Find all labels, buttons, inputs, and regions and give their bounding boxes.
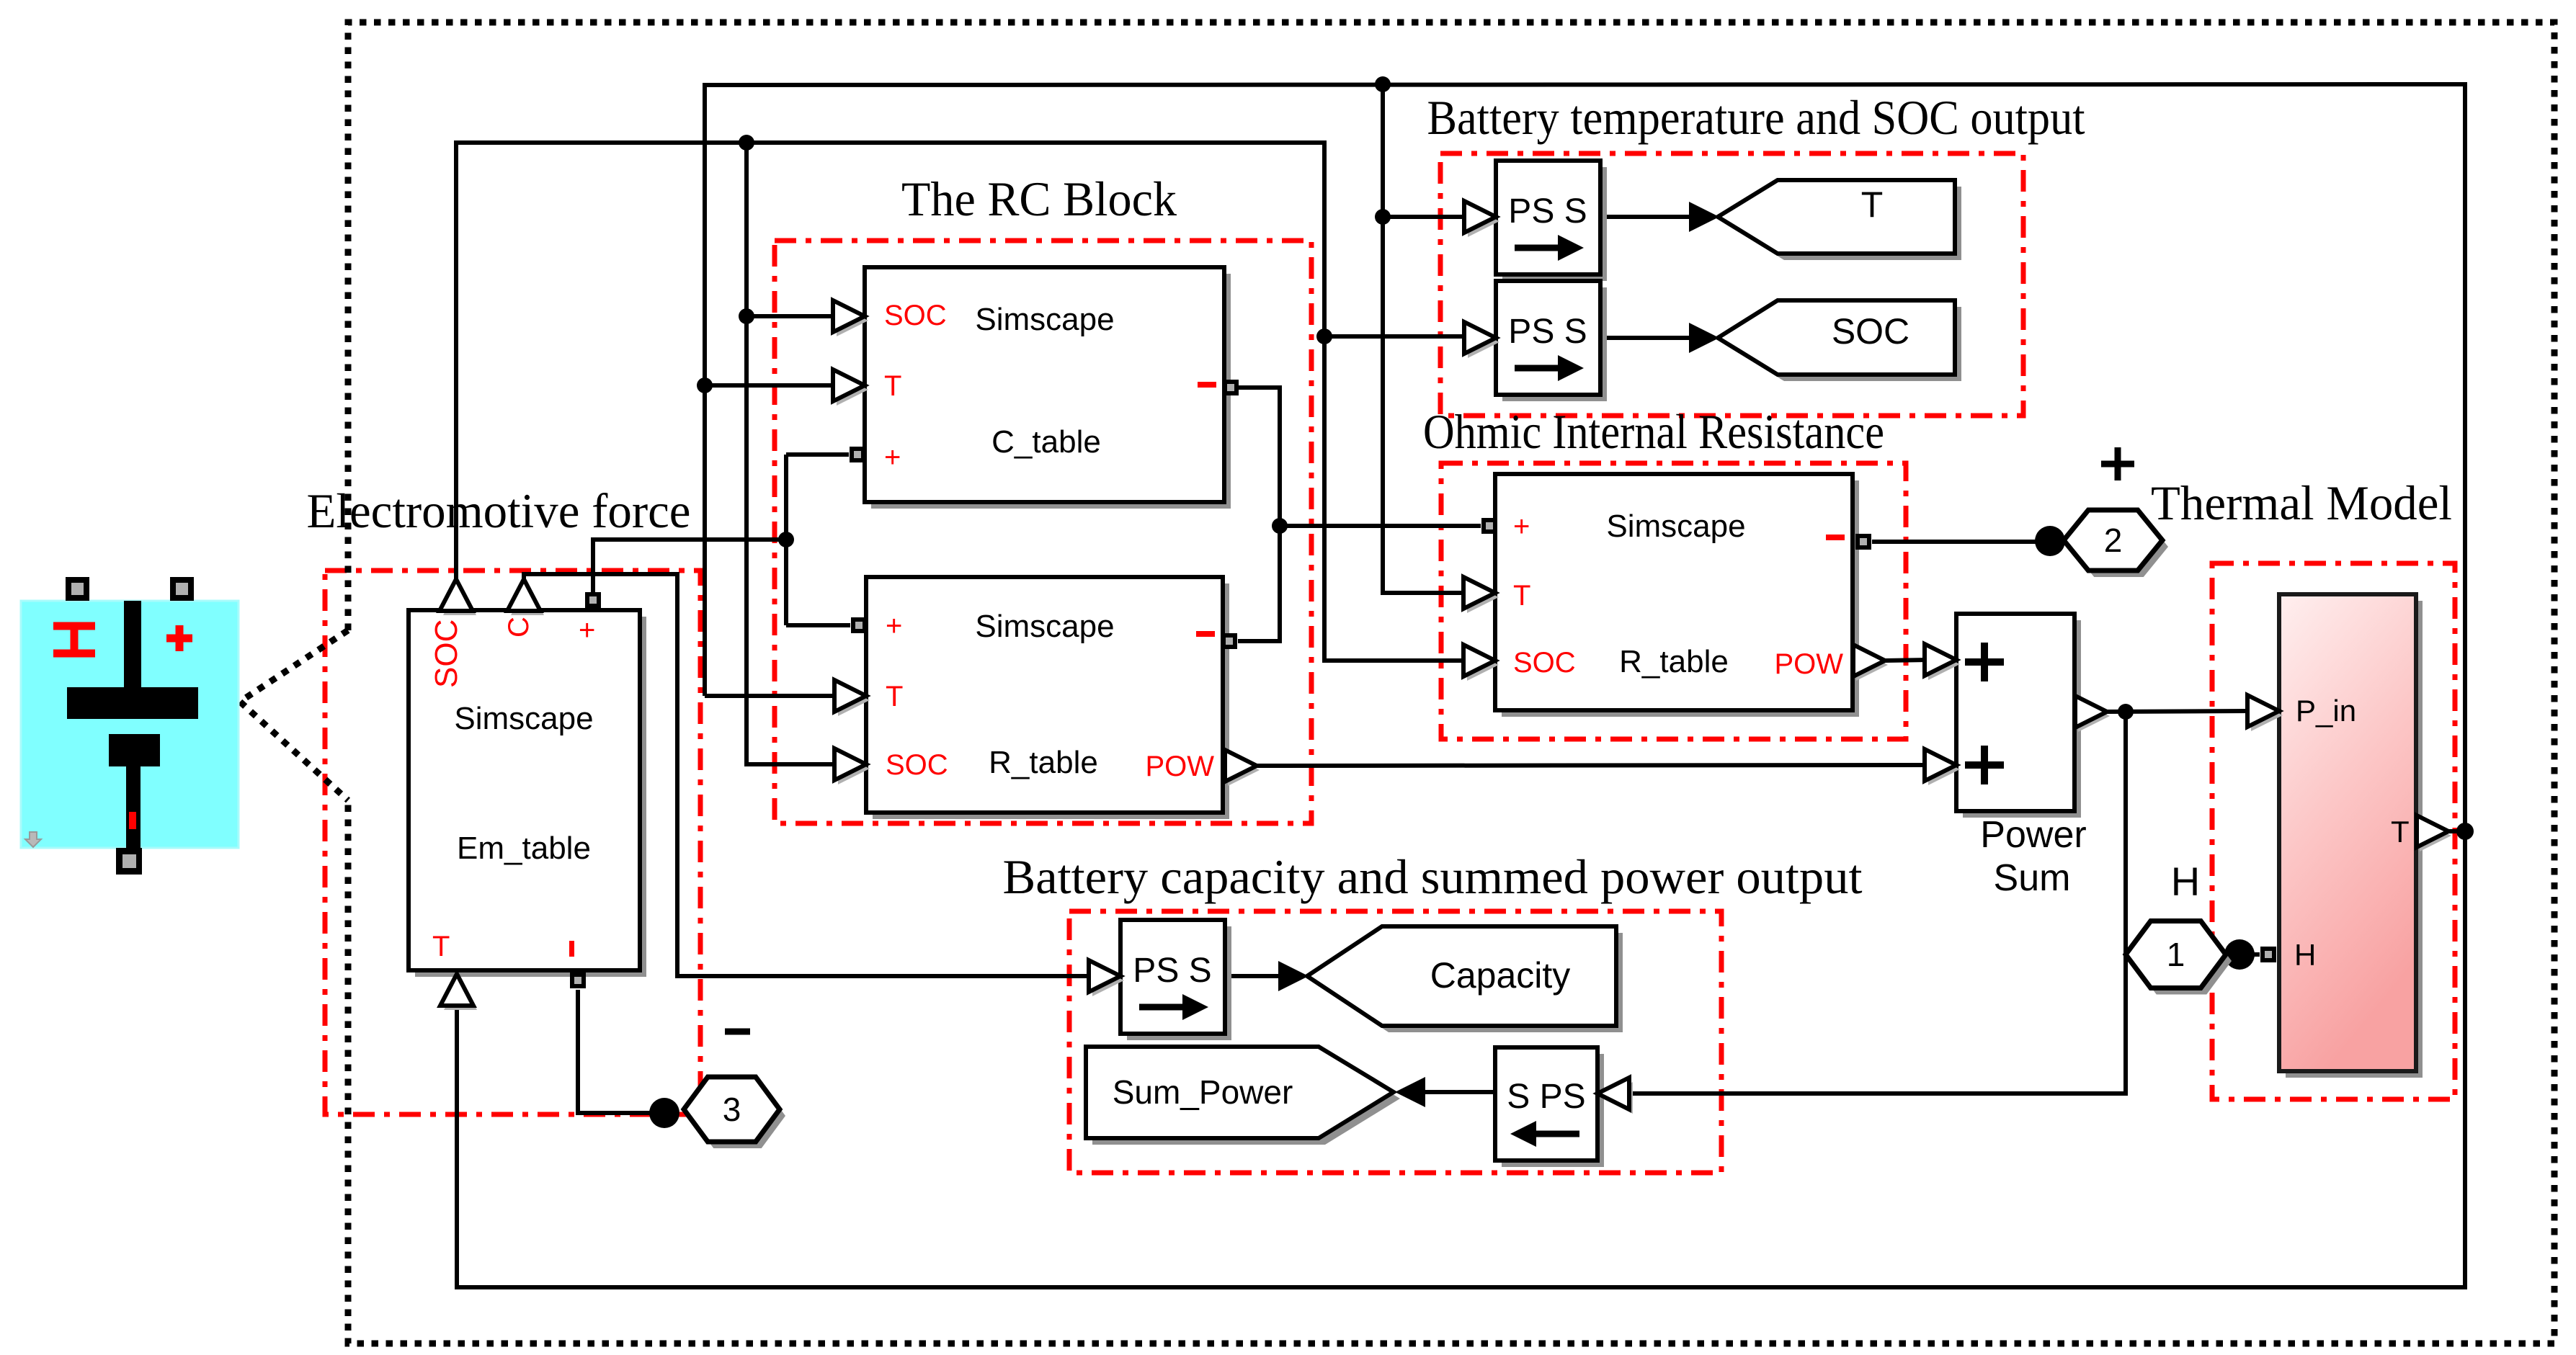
svg-text:T: T [432,931,450,962]
pin thermal H port [2260,947,2276,962]
junction T net top [1375,76,1391,92]
svg-text:SOC: SOC [429,620,464,688]
junction power sum output [2118,704,2134,720]
pin C_table - [1223,380,1239,395]
wire T branch to C_table T [705,383,834,388]
region box Battery temperature and SOC output [1440,153,2023,416]
junction port 2 connection [2035,526,2065,556]
svg-text:Thermal Model: Thermal Model [2151,475,2452,530]
wire PS2 to SOC tag [1600,336,1695,340]
svg-text:R_table: R_table [989,745,1098,780]
block PS-Simulink converter 2 (SOC) [1496,281,1607,401]
svg-text:2: 2 [2104,522,2123,559]
pin C_table + [850,447,865,462]
label - for port 3 [725,1029,750,1035]
wire S-PS to Sum_Power [1405,1090,1498,1094]
svg-text:SOC: SOC [886,749,948,781]
pin Em_table - (bottom) [570,972,586,988]
pin Em_table C (top) [511,583,544,615]
svg-text:H: H [2171,859,2200,904]
pin Em_table + (top) [585,592,601,608]
region box Battery capacity and summed power output [1069,911,1721,1173]
svg-text:T: T [884,370,901,402]
port 1 (H thermal) hexagon [2126,921,2232,995]
svg-text:Simscape: Simscape [975,302,1114,337]
svg-text:P_in: P_in [2296,694,2356,728]
pin Ohmic R_table POW output [1856,649,1888,681]
svg-text:POW: POW [1774,648,1843,680]
region box Ohmic Internal Resistance [1441,463,1906,739]
svg-text:C: C [503,617,535,638]
block Power Sum (adder) [1956,614,2087,899]
wire + to C_table [786,452,849,457]
block R_table (Simscape table, RC resistance) [866,577,1229,819]
pin Power Sum output [2078,700,2110,732]
svg-text:Electromotive force: Electromotive force [307,483,691,538]
pin RC R_table T [838,684,870,716]
junction T to PS1 [1375,209,1391,225]
wire branch to Ohmic + port [1280,524,1481,528]
pin RC R_table + [851,617,867,633]
block Em_table (Simscape table, electromotive force) [409,610,646,977]
svg-text:Sum: Sum [1994,857,2071,899]
block Simulink-PS converter (summed power) [1495,1047,1604,1167]
wire PS1 to T tag [1600,215,1695,219]
wire T branch to Ohmic T via PS [1383,84,1465,593]
wire SOC branch to PS-S converter 2 [1324,334,1465,339]
wire PS-S to Capacity tag [1224,974,1287,978]
svg-text:SOC: SOC [1832,311,1909,352]
pin Ohmic R_table + [1481,518,1497,534]
wire Ohmic minus to port 2 [1872,540,2039,544]
wire + net from Em_table [593,540,786,609]
pin PS-S 1 input [1468,205,1499,237]
tag SOC output [1718,300,1961,381]
wire C_table minus to R_table minus [1238,388,1280,641]
svg-text:Simscape: Simscape [975,609,1114,644]
pin Power Sum +2 input [1928,753,1960,785]
wire C net to PS-S capacity [524,574,1089,976]
svg-text:+: + [886,610,902,642]
svg-text:S PS: S PS [1507,1078,1585,1116]
svg-text:The RC Block: The RC Block [901,171,1177,226]
svg-text:Simscape: Simscape [1606,509,1745,544]
wire + to RC R_table [786,623,850,627]
svg-text:H: H [2294,938,2316,972]
battery icon small gray arrow [25,832,41,847]
block R_table (Simscape table, ohmic internal resistance) [1495,474,1859,717]
svg-text:T: T [2391,815,2410,849]
pin P_in input [2251,699,2283,731]
junction minus net to ohmic [1272,518,1288,534]
wire SOC branch to RC R_table [746,143,836,764]
wire T branch to PS-S converter 1 [1383,215,1465,219]
block PS-Simulink converter 3 (capacity) [1120,920,1231,1040]
tag T output [1718,180,1961,260]
arrow into SOC tag [1689,323,1719,353]
pin Em_table SOC (top) [443,583,476,615]
arrow into Sum_Power tag [1395,1077,1425,1107]
battery icon plus marker [166,635,192,643]
region box Thermal Model [2212,563,2455,1099]
junction SOC main branch [739,135,754,151]
pin Ohmic R_table - [1855,534,1871,550]
callout wedge to battery icon [240,630,348,800]
pin C_table SOC [837,305,868,336]
svg-text:Em_table: Em_table [457,831,591,866]
junction SOC to C_table [739,308,754,324]
pin Ohmic R_table T [1467,581,1499,613]
pin PS-S 3 input [1092,965,1124,996]
svg-text:3: 3 [723,1091,741,1128]
svg-text:Simscape: Simscape [454,701,593,736]
wire T net main loop [457,84,2465,1287]
pin RC R_table - [1221,633,1237,649]
junction T output of thermal model [2456,823,2474,840]
junction SOC to PS2 [1316,328,1332,344]
svg-text:1: 1 [2167,936,2185,973]
svg-text:Battery temperature and SOC ou: Battery temperature and SOC output [1427,90,2085,145]
svg-text:T: T [1513,580,1530,612]
wire Power Sum to P_in [2105,711,2248,712]
svg-text:C_table: C_table [991,424,1101,460]
svg-text:PS S: PS S [1508,313,1587,351]
wire SOC branch to C_table [746,314,834,318]
block Thermal Model subsystem (P_in) [2279,594,2423,1078]
pin PS-S 2 input [1468,326,1499,358]
wire Power Sum to S-PS [1631,712,2126,1094]
port 2 (+ terminal) hexagon [2064,510,2168,577]
arrow into Capacity tag [1278,961,1309,991]
battery icon rotated H marker [53,622,95,630]
wire T to RC R_table T [705,694,836,698]
svg-text:+: + [579,614,595,646]
wire + net vertical [784,455,788,625]
battery icon (masked subsystem) [21,577,239,875]
svg-text:SOC: SOC [1513,647,1576,679]
pin C_table T [837,374,868,406]
svg-text:PS S: PS S [1133,952,1211,990]
junction port 3 connection [649,1098,679,1128]
svg-text:Sum_Power: Sum_Power [1113,1073,1293,1111]
svg-text:Ohmic Internal Resistance: Ohmic Internal Resistance [1423,404,1884,459]
svg-text:Power: Power [1980,814,2086,856]
svg-text:+: + [884,442,901,473]
pin S-PS input (right side) [1601,1082,1633,1114]
pin Em_table T (bottom) [444,978,477,1010]
wire port 1 to H port [2226,952,2260,957]
svg-text:Battery capacity and summed po: Battery capacity and summed power output [1003,849,1863,904]
wire Em_table minus to port 3 [578,990,663,1113]
svg-text:+: + [1513,511,1530,542]
wire thermal T to loop [2447,829,2465,833]
arrow into T tag [1689,202,1719,232]
port 3 (- terminal) hexagon [684,1077,785,1148]
svg-text:POW: POW [1145,751,1214,782]
pin Power Sum +1 input [1928,648,1960,680]
svg-text:T: T [1861,184,1884,225]
svg-text:R_table: R_table [1619,644,1729,679]
junction + net [778,532,794,547]
block C_table (Simscape table, RC capacitance) [865,267,1231,509]
wire SOC net main [456,143,1465,661]
region box The RC Block [775,241,1311,823]
pin RC R_table POW output [1228,754,1260,786]
tag Capacity output [1307,926,1623,1032]
block PS-Simulink converter 1 (temperature) [1496,161,1607,281]
battery icon ports [66,577,89,601]
label + for port 2 [2101,447,2134,480]
svg-text:T: T [886,681,903,712]
svg-text:Capacity: Capacity [1430,955,1571,996]
wire Ohmic POW to Power Sum [1885,660,1925,661]
svg-text:PS S: PS S [1508,192,1587,231]
junction T to C_table [697,377,713,393]
pin Ohmic R_table SOC [1467,649,1499,681]
tag Sum_Power output [1086,1047,1400,1145]
pin thermal T output [2420,820,2451,851]
wire RC R_table POW to Power Sum [1255,765,1925,766]
svg-text:SOC: SOC [884,300,947,331]
pin RC R_table SOC [838,753,870,784]
region box Electromotive force [325,571,700,1114]
junction port 1 connection [2224,939,2255,970]
